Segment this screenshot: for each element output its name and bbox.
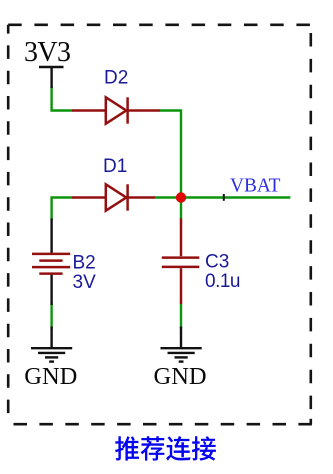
svg-text:C3: C3 xyxy=(205,252,229,273)
svg-text:GND: GND xyxy=(24,363,77,390)
svg-text:B2: B2 xyxy=(73,253,96,274)
svg-text:3V3: 3V3 xyxy=(24,37,70,68)
svg-text:0.1u: 0.1u xyxy=(205,271,240,292)
svg-text:VBAT: VBAT xyxy=(230,175,281,197)
svg-text:D1: D1 xyxy=(103,156,127,177)
svg-text:D2: D2 xyxy=(104,68,128,89)
svg-text:3V: 3V xyxy=(73,272,97,293)
svg-text:GND: GND xyxy=(154,363,207,390)
